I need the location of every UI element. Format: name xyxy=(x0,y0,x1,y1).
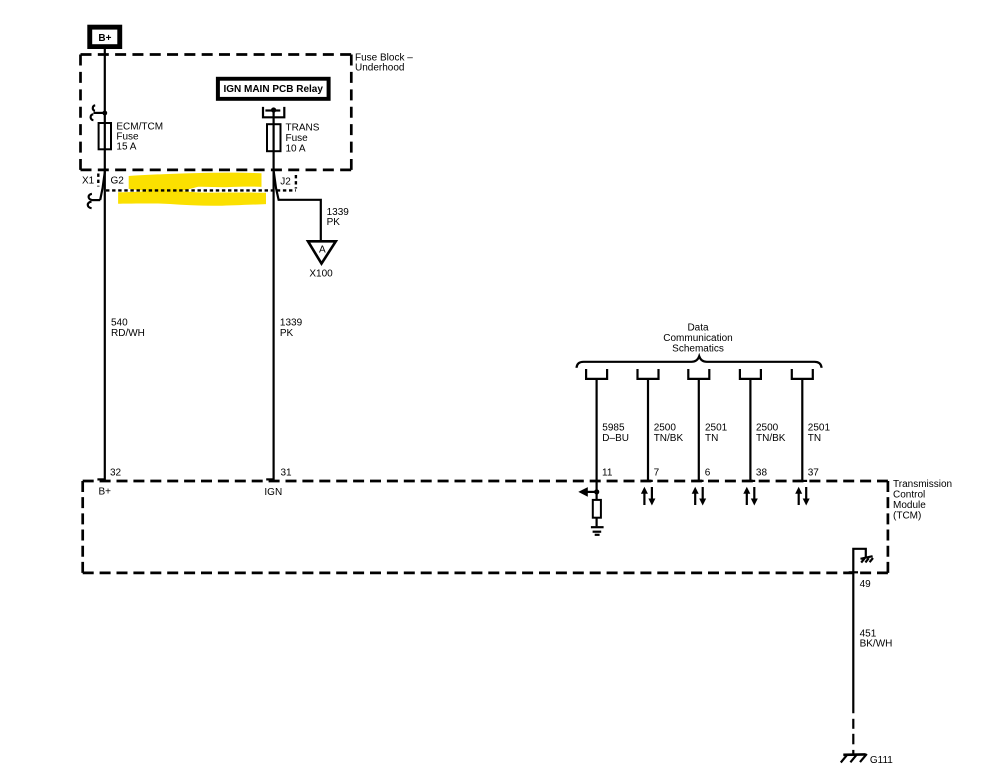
svg-text:X1: X1 xyxy=(82,175,95,186)
svg-text:B+: B+ xyxy=(99,487,112,498)
svg-text:2501: 2501 xyxy=(705,423,728,434)
svg-text:37: 37 xyxy=(808,467,820,478)
connector symbol above ECM/TCM fuse xyxy=(91,105,108,120)
svg-text:2501: 2501 xyxy=(808,423,831,434)
svg-text:TN/BK: TN/BK xyxy=(654,433,684,444)
wire 2500 TN/BK to pin 7 xyxy=(647,379,649,481)
svg-text:IGN: IGN xyxy=(264,487,282,498)
pin 49 internal chassis ground xyxy=(853,549,873,573)
svg-text:Module: Module xyxy=(893,500,926,511)
B+ battery feed box xyxy=(87,25,122,49)
svg-text:Communication: Communication xyxy=(663,333,732,344)
svg-text:6: 6 xyxy=(705,467,711,478)
pin 11 internal: ground xyxy=(591,527,604,535)
double arrows pin 6 xyxy=(692,487,707,506)
svg-text:J2: J2 xyxy=(280,176,291,187)
svg-text:X100: X100 xyxy=(309,269,333,280)
data connector 2 xyxy=(638,369,659,379)
svg-text:TN: TN xyxy=(808,433,821,444)
ground G111 xyxy=(841,754,867,763)
svg-text:11: 11 xyxy=(602,467,613,478)
double arrows pin 7 xyxy=(641,487,656,506)
wire 5985 D-BU to pin 11 xyxy=(595,379,597,500)
svg-text:PK: PK xyxy=(327,217,341,228)
pin ticks 7 6 38 37 xyxy=(643,480,653,482)
svg-text:1339: 1339 xyxy=(280,317,303,328)
svg-text:5985: 5985 xyxy=(602,423,625,434)
pin 11 internal: wire to ground xyxy=(595,518,597,527)
data connector 1 xyxy=(586,369,607,379)
TCM dashed box xyxy=(83,481,888,573)
wire 451 BK/WH xyxy=(852,573,854,713)
wire 2500 TN/BK to pin 38 xyxy=(749,379,751,481)
highlight band 2 xyxy=(118,190,266,206)
svg-text:2500: 2500 xyxy=(756,423,779,434)
wire relay to pin 31 (1339 PK) xyxy=(273,110,275,481)
svg-text:15 A: 15 A xyxy=(116,142,136,153)
svg-text:G111: G111 xyxy=(870,755,893,766)
data connector 4 xyxy=(740,369,761,379)
svg-text:TRANS: TRANS xyxy=(286,123,320,134)
pin 11 internal: arrow left xyxy=(578,487,599,497)
svg-text:31: 31 xyxy=(281,467,293,478)
IGN MAIN PCB Relay box xyxy=(216,77,331,101)
svg-text:TN: TN xyxy=(705,433,718,444)
svg-text:10 A: 10 A xyxy=(286,144,306,155)
svg-text:TN/BK: TN/BK xyxy=(756,433,786,444)
svg-text:Fuse Block –: Fuse Block – xyxy=(355,52,413,63)
svg-text:A: A xyxy=(319,245,326,256)
svg-text:Schematics: Schematics xyxy=(672,343,724,354)
dashed continuation of 451 BK/WH xyxy=(852,719,854,729)
pin 49 tick xyxy=(849,571,858,573)
svg-text:D–BU: D–BU xyxy=(602,433,629,444)
svg-text:Fuse: Fuse xyxy=(286,133,309,144)
splice pack X100 triangle xyxy=(308,241,336,263)
svg-text:32: 32 xyxy=(110,467,122,478)
svg-text:49: 49 xyxy=(860,579,872,590)
TRANS fuse xyxy=(267,124,281,151)
svg-text:Underhood: Underhood xyxy=(355,63,404,74)
connector J2 break symbol / branch to X100 xyxy=(274,171,321,241)
fuse block - underhood dashed box xyxy=(81,55,352,170)
ECM/TCM fuse xyxy=(99,123,111,149)
pin 31 tick xyxy=(266,478,273,480)
connector X1 break symbol below fuse block xyxy=(88,171,105,208)
wire 2501 TN to pin 6 xyxy=(698,379,700,481)
svg-text:G2: G2 xyxy=(111,176,125,187)
connector dotted outline xyxy=(97,174,99,187)
svg-text:IGN MAIN PCB Relay: IGN MAIN PCB Relay xyxy=(223,84,323,95)
wire B+ to pin 32 (540 RD/WH) xyxy=(104,49,106,481)
wire 2501 TN to pin 37 xyxy=(801,379,803,481)
svg-text:Control: Control xyxy=(893,490,925,501)
svg-text:BK/WH: BK/WH xyxy=(860,639,893,650)
svg-text:38: 38 xyxy=(756,467,768,478)
svg-text:B+: B+ xyxy=(98,33,111,44)
svg-text:7: 7 xyxy=(654,467,660,478)
svg-text:540: 540 xyxy=(111,317,128,328)
highlight band 1 xyxy=(129,173,262,192)
svg-text:(TCM): (TCM) xyxy=(893,510,921,521)
svg-text:RD/WH: RD/WH xyxy=(111,328,145,339)
data connector 3 xyxy=(688,369,709,379)
pin 32 tick xyxy=(97,478,104,480)
relay output terminal symbol xyxy=(263,107,284,117)
svg-text:PK: PK xyxy=(280,328,294,339)
double arrows pin 38 xyxy=(743,487,758,506)
double arrows pin 37 xyxy=(795,487,810,506)
pin 11 internal: resistor xyxy=(593,500,601,518)
svg-text:2500: 2500 xyxy=(654,423,677,434)
data connector 5 xyxy=(792,369,813,379)
brace xyxy=(577,356,822,368)
svg-text:Data: Data xyxy=(687,322,709,333)
